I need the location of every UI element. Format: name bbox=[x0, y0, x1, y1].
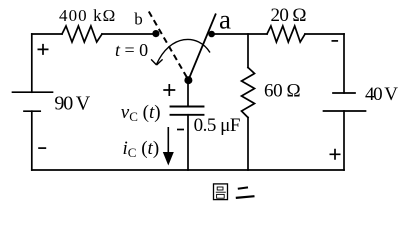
svg-text:400 kΩ: 400 kΩ bbox=[59, 6, 115, 25]
svg-text:a: a bbox=[219, 5, 231, 35]
svg-text:40 V: 40 V bbox=[365, 84, 398, 105]
svg-text:b: b bbox=[134, 10, 143, 29]
svg-text:vC (t): vC (t) bbox=[121, 102, 161, 124]
svg-text:60 Ω: 60 Ω bbox=[264, 81, 301, 102]
svg-text:20 Ω: 20 Ω bbox=[271, 5, 307, 26]
svg-text:0.5 μF: 0.5 μF bbox=[194, 115, 241, 136]
svg-text:t = 0: t = 0 bbox=[115, 40, 148, 60]
svg-text:90 V: 90 V bbox=[54, 93, 90, 115]
